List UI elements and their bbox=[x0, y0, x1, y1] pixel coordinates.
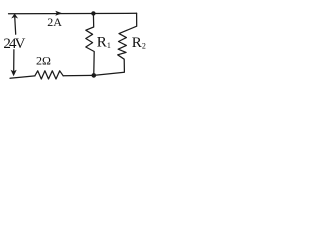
node junction dot top bbox=[91, 11, 95, 15]
resistor R1 bbox=[86, 13, 94, 73]
svg-text:24V: 24V bbox=[3, 36, 25, 52]
arrow 2A current direction bbox=[55, 11, 62, 16]
node junction dot bottom bbox=[92, 73, 97, 78]
svg-text:R1: R1 bbox=[97, 34, 111, 50]
resistor 2ohm bbox=[35, 71, 63, 79]
wire bottom bbox=[10, 76, 35, 78]
arrow 24V down bbox=[11, 70, 17, 77]
svg-text:2Ω: 2Ω bbox=[36, 54, 51, 68]
svg-text:2A: 2A bbox=[47, 15, 62, 29]
arrow 24V up bbox=[11, 14, 18, 19]
wire top bbox=[9, 12, 137, 14]
wire bottom-mid bbox=[63, 74, 94, 76]
wire 24V upper lead bbox=[15, 15, 16, 35]
wire bottom-right bbox=[94, 72, 125, 75]
wire 24V lower lead bbox=[13, 50, 15, 71]
resistor R2 bbox=[118, 13, 137, 72]
svg-text:R2: R2 bbox=[132, 35, 146, 51]
